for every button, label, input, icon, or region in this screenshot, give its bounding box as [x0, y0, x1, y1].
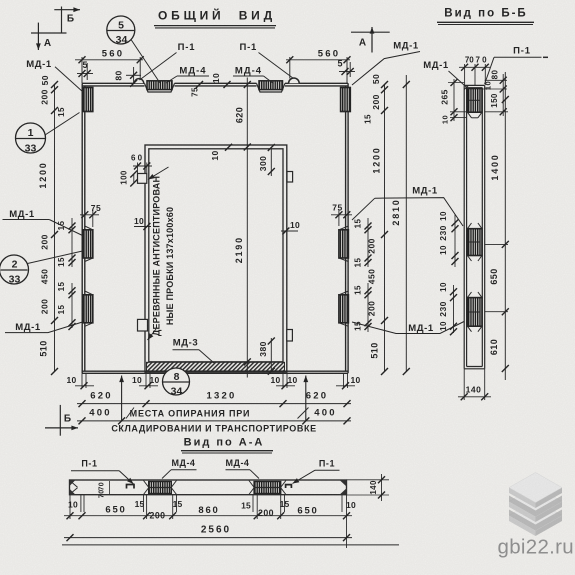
- plug bottom-left: [138, 319, 148, 331]
- bottom 10 ticks: [75, 385, 94, 387]
- dimension 560 right: [286, 59, 350, 61]
- section mark A top-right: [351, 31, 390, 33]
- MD-1 block top-left corner: [83, 88, 93, 112]
- right inner dim line: [384, 84, 386, 372]
- MD-4 slot left (top edge): [145, 83, 175, 92]
- section mark A top-left: [31, 32, 67, 34]
- callout 5/34: [107, 16, 135, 44]
- left dim line: [54, 84, 56, 372]
- dimension 100 plug: [133, 174, 135, 184]
- A-A MD-4 block right: [254, 482, 281, 494]
- B-B right dim line: [504, 72, 506, 380]
- left block dim line lower: [71, 283, 73, 328]
- row 400 line: [77, 420, 351, 422]
- callout 2/33: [0, 255, 29, 284]
- A-A strip outline: [70, 480, 347, 495]
- A-A dim row2 2560: [64, 537, 352, 539]
- support arrows: [121, 376, 123, 421]
- A-A loop anchor right: [286, 485, 292, 488]
- dimension 60 plug: [137, 163, 139, 174]
- right outer dim line 2810: [405, 75, 407, 372]
- leader slashes to arrows: [126, 408, 134, 419]
- P-1 loop left: [134, 79, 143, 84]
- plug top-right: [287, 172, 293, 183]
- A-A dim row1: [64, 515, 352, 517]
- B-B dim 140 bottom: [463, 369, 465, 400]
- plug top-left: [138, 174, 147, 184]
- row 620-1320-620 line: [77, 403, 351, 405]
- vertical centerline with 620/2190: [246, 78, 248, 378]
- dimension 5 left: [77, 73, 93, 75]
- MD-1 block top-right corner: [341, 88, 351, 112]
- right block dim line lower: [367, 283, 369, 332]
- B-B dims 80/10/150 right: [485, 79, 507, 81]
- callout 8/34: [163, 368, 190, 395]
- MD-3 hatched support strip: [147, 362, 285, 371]
- section mark B top-left: [61, 7, 63, 34]
- B-B block middle: [467, 229, 482, 256]
- extension lines above top edge: [81, 57, 83, 83]
- A-A MD-4 block left: [149, 482, 172, 494]
- MD-1 block left lower: [83, 295, 93, 323]
- B-B block top: [467, 89, 482, 113]
- B-B block2 dims: [454, 214, 456, 267]
- dimension 560 left: [75, 59, 143, 61]
- MD-4 slot right (top edge): [257, 83, 286, 92]
- plug bottom-right: [287, 330, 293, 342]
- logo gbi22 slabs: [509, 473, 562, 537]
- dimension 5 right: [339, 71, 355, 73]
- MD-1 block right middle: [339, 230, 349, 258]
- right block dim line upper: [367, 218, 369, 267]
- dimension 10 opening right: [281, 230, 298, 232]
- A-A extension lines: [69, 495, 71, 519]
- dimension 380: [270, 338, 272, 372]
- B-B block bottom: [467, 298, 482, 327]
- MD-1 block left middle: [83, 230, 93, 258]
- door opening outline: [145, 145, 287, 372]
- dimension 10 opening left: [134, 226, 151, 228]
- panel outline (general view): [82, 83, 348, 373]
- A-A bottom line: [62, 544, 399, 546]
- section mark B bottom-left: [59, 405, 61, 436]
- A-A dim 140: [347, 479, 390, 481]
- dimension 10 top-middle: [196, 81, 203, 88]
- MD-1 block right lower: [339, 295, 349, 323]
- B-B dim 265 left: [448, 82, 464, 84]
- B-B block3 dims: [453, 285, 455, 333]
- P-1 loop right: [289, 78, 300, 83]
- dimension 80 left-loop: [133, 67, 135, 84]
- A-A loop anchor left: [127, 485, 135, 489]
- bottom extension pairs: [81, 373, 83, 388]
- left block dim line upper: [71, 218, 73, 267]
- B-B dim 70-70: [464, 64, 466, 85]
- note leader to bottom plug: [148, 329, 157, 340]
- callout 1/33: [16, 123, 46, 153]
- note leader to top plug: [148, 167, 169, 180]
- dimension 300: [270, 147, 272, 176]
- B-B strip outline: [464, 85, 485, 368]
